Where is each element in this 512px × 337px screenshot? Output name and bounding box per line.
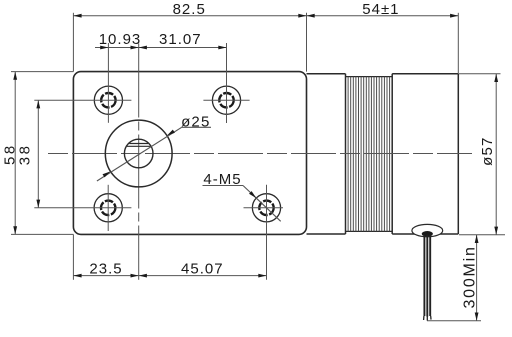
dia25 arrows (103, 171, 111, 177)
dim 58 line (14, 72, 16, 235)
svg-text:82.5: 82.5 (173, 1, 206, 18)
shaft flat chord 1 (129, 143, 148, 145)
svg-text:300Min: 300Min (462, 245, 479, 308)
dim 54 arrows (307, 14, 315, 18)
svg-text:45.07: 45.07 (181, 260, 224, 277)
gearbox plate outline 82.5x58 (73, 72, 306, 235)
rib section right step (391, 74, 393, 234)
dim 23.5 ext left (72, 234, 74, 279)
dim 23.5 arrows (73, 274, 81, 278)
motor right edge (457, 74, 459, 234)
rib section bottom edge (346, 230, 393, 232)
dim 58 extension bottom (11, 233, 73, 235)
svg-text:23.5: 23.5 (89, 260, 122, 277)
svg-text:10.93: 10.93 (99, 31, 142, 48)
dim bottom line (73, 275, 266, 277)
dim 31.07 arrows (139, 46, 147, 50)
dia25 leader underline (182, 126, 211, 128)
dim 82.5 arrows (73, 14, 81, 18)
300Min dim line (476, 235, 478, 321)
dim 10.93/31.07 line (95, 47, 227, 49)
dim 10.93 arrows (100, 46, 108, 50)
dim 38 line (37, 100, 39, 208)
dim 54 line (307, 15, 459, 17)
dim 82.5 extension right (306, 13, 308, 72)
dia25 leader line (97, 127, 182, 181)
dia57 ext bottom (459, 234, 505, 236)
svg-text:31.07: 31.07 (159, 31, 202, 48)
motor section A bottom edge (307, 233, 346, 235)
mounting hole M5 top-left (94, 86, 122, 114)
dim 45.07 arrows (139, 274, 147, 278)
motor section C bottom edge (392, 233, 458, 235)
shaft boss circle dia25 (105, 120, 172, 187)
mounting hole M5 bottom-right (252, 194, 280, 222)
motor section A top edge (307, 73, 346, 75)
dim 58 arrows (13, 72, 17, 80)
dim 58 extension top (11, 71, 73, 73)
mounting hole M5 top-right (212, 86, 240, 114)
motor rib lines (347, 77, 349, 232)
svg-text:38: 38 (16, 144, 33, 166)
vertical centerline through shaft (138, 44, 140, 280)
dim 82.5 extension left (72, 13, 74, 72)
horizontal centerline (motor axis) (48, 153, 472, 155)
dia57 arrows (494, 74, 498, 82)
dim 54 extension right (457, 13, 459, 74)
rib section top edge (346, 76, 393, 78)
rib section left step (345, 74, 347, 234)
wire bundle cross-section (422, 231, 433, 237)
output shaft circle (124, 139, 153, 168)
wire grommet ellipse (412, 224, 443, 236)
dim 38 arrows (36, 100, 40, 108)
4-M5 leader line (243, 186, 281, 222)
svg-text:54±1: 54±1 (362, 1, 399, 18)
lead wires (423, 235, 425, 317)
svg-text:ø57: ø57 (479, 136, 496, 165)
svg-text:ø25: ø25 (181, 114, 210, 131)
4-M5 arrow (249, 191, 256, 198)
300Min arrows (475, 235, 479, 243)
300Min ext bottom (427, 320, 481, 322)
mounting hole M5 bottom-left (94, 194, 122, 222)
dia57 ext top (459, 73, 501, 75)
4-M5 underline (203, 185, 244, 187)
dim 82.5 line (73, 15, 306, 17)
shaft flat chord 2 (127, 145, 151, 147)
motor section C top edge (392, 73, 458, 75)
dia57 dim line (495, 74, 497, 235)
